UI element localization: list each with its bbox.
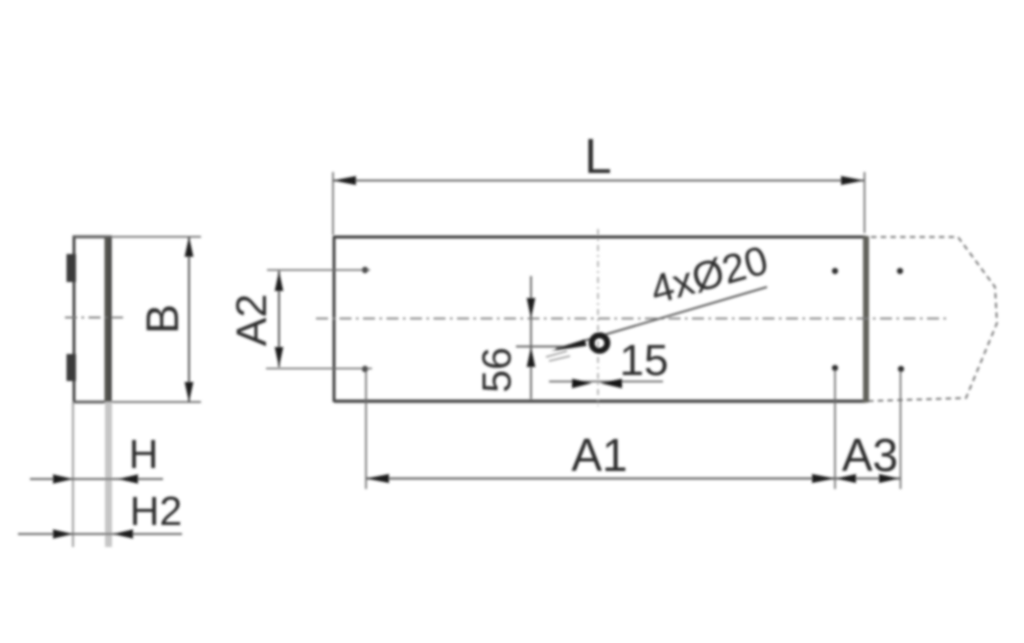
A1 extension line left bbox=[365, 370, 367, 489]
A1 arrow left bbox=[366, 474, 389, 483]
hole bottom-mid bbox=[832, 365, 838, 371]
main plate vertical centerline bbox=[597, 229, 599, 406]
leader arrowhead bbox=[551, 339, 587, 351]
B extension line bottom bbox=[74, 401, 201, 403]
H arrow right bbox=[118, 474, 138, 483]
side view outline bbox=[74, 237, 110, 402]
svg-text:A3: A3 bbox=[842, 429, 898, 481]
hole group center blob bbox=[592, 335, 608, 351]
A1 dimension line bbox=[366, 477, 835, 479]
svg-text:A1: A1 bbox=[571, 429, 627, 481]
15 dimension line bbox=[549, 381, 663, 383]
A2 arrow top bbox=[275, 271, 284, 291]
A2 extension line bottom bbox=[266, 368, 372, 370]
H dimension line bbox=[30, 478, 163, 480]
leader open barb bbox=[546, 351, 570, 361]
56 arrow upper bbox=[527, 298, 536, 319]
svg-text:L: L bbox=[584, 130, 611, 184]
A2 extension line top bbox=[267, 269, 370, 271]
hole bottom-right bbox=[898, 366, 904, 372]
B extension line top bbox=[74, 236, 201, 238]
A2 dimension line bbox=[278, 271, 280, 367]
B arrow top bbox=[185, 237, 194, 257]
L extension line left bbox=[332, 172, 334, 235]
svg-text:4xØ20: 4xØ20 bbox=[645, 237, 772, 313]
H arrow left bbox=[53, 474, 73, 483]
side view centerline bbox=[62, 317, 123, 319]
15 arrow left bbox=[572, 379, 592, 389]
L extension line right bbox=[864, 172, 866, 233]
hole top-mid bbox=[832, 268, 838, 274]
main plate horizontal centerline bbox=[316, 318, 946, 320]
L dimension line bbox=[333, 180, 864, 182]
56 extension tick bbox=[516, 346, 569, 348]
svg-text:B: B bbox=[137, 304, 188, 334]
hole top-right bbox=[897, 268, 903, 274]
H2 arrow left bbox=[53, 529, 73, 538]
A3 extension line right bbox=[900, 371, 902, 489]
B arrow bottom bbox=[185, 382, 194, 402]
hole top-left bbox=[362, 267, 368, 273]
A3 arrow left bbox=[836, 474, 856, 483]
56 dimension line bbox=[530, 276, 532, 399]
main plate outline top edge bbox=[334, 236, 866, 239]
side view upper hole mark bbox=[67, 254, 77, 282]
B dimension line bbox=[188, 237, 190, 402]
A1/A3 extension line mid bbox=[834, 370, 836, 489]
L arrow left bbox=[333, 176, 356, 185]
H2 arrow right bbox=[113, 529, 133, 538]
main plate outline left edge bbox=[333, 236, 336, 402]
A3 arrow right bbox=[879, 474, 899, 483]
A1 arrow right bbox=[812, 474, 835, 483]
main plate outline bottom edge bbox=[334, 400, 866, 403]
main plate thick right edge bbox=[863, 236, 869, 403]
56 arrow lower bbox=[527, 347, 536, 367]
svg-text:H2: H2 bbox=[130, 488, 182, 534]
H2 dimension line bbox=[18, 533, 182, 535]
A3 dimension line bbox=[835, 477, 900, 479]
svg-text:56: 56 bbox=[473, 347, 519, 393]
svg-text:15: 15 bbox=[620, 336, 669, 385]
H extension line left bbox=[72, 402, 74, 547]
H2 extension band right bbox=[105, 402, 112, 547]
svg-text:A2: A2 bbox=[228, 294, 276, 347]
dashed phantom extension outline bbox=[869, 237, 997, 401]
side view lower hole mark bbox=[67, 354, 77, 381]
L arrow right bbox=[841, 176, 864, 185]
15 arrow right bbox=[600, 379, 622, 389]
hole bottom-left bbox=[362, 366, 368, 372]
svg-text:H: H bbox=[129, 431, 159, 477]
leader line 4x020 bbox=[556, 287, 767, 349]
A2 arrow bottom bbox=[275, 347, 284, 367]
side view thick right face bbox=[105, 237, 110, 402]
